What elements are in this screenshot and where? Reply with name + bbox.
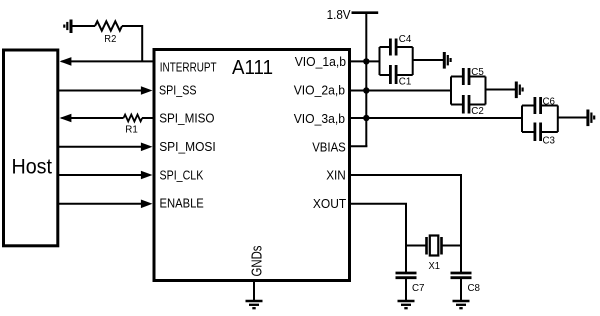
wire VIO_2a,b bbox=[351, 90, 452, 92]
svg-text:C8: C8 bbox=[468, 283, 481, 294]
ground (sideways, right of C4/C1) bbox=[444, 52, 450, 69]
svg-text:SPI_MOSI: SPI_MOSI bbox=[159, 140, 216, 154]
svg-text:X1: X1 bbox=[429, 261, 441, 272]
svg-text:XIN: XIN bbox=[326, 169, 346, 183]
svg-text:R1: R1 bbox=[125, 125, 138, 136]
svg-text:C4: C4 bbox=[399, 34, 412, 45]
wire VIO_1a,b bbox=[351, 60, 380, 62]
svg-text:C2: C2 bbox=[471, 106, 484, 117]
svg-text:XOUT: XOUT bbox=[313, 197, 347, 211]
svg-text:1.8V: 1.8V bbox=[327, 8, 351, 22]
Host block bbox=[4, 50, 58, 246]
node junction VIO_2/rail bbox=[363, 87, 369, 93]
wire C5/C2 to ground bbox=[486, 89, 516, 91]
wire GNDs to ground bbox=[253, 281, 255, 301]
svg-text:ENABLE: ENABLE bbox=[160, 197, 204, 211]
svg-text:VIO_1a,b: VIO_1a,b bbox=[295, 55, 346, 69]
wire ENABLE (arrow into A111) bbox=[58, 200, 153, 209]
wire INTERRUPT (A111 to Host, arrow into Host) bbox=[60, 57, 153, 66]
wire XOUT to crystal bbox=[351, 204, 407, 272]
wire VIO_3a,b bbox=[351, 117, 523, 119]
wire SPI_MISO (A111 to Host, arrow into Host) bbox=[60, 114, 153, 123]
svg-text:C6: C6 bbox=[543, 97, 556, 108]
svg-text:VBIAS: VBIAS bbox=[312, 141, 346, 155]
resistor R2 bbox=[95, 21, 122, 45]
ground (below GNDs pin) bbox=[246, 301, 263, 308]
svg-text:SPI_MISO: SPI_MISO bbox=[159, 111, 214, 125]
wire SPI_CLK (arrow into A111) bbox=[58, 171, 153, 180]
ground (below C7) bbox=[398, 301, 415, 308]
svg-text:Host: Host bbox=[12, 155, 53, 178]
capacitor C8 bbox=[451, 273, 481, 294]
svg-text:INTERRUPT: INTERRUPT bbox=[160, 60, 217, 74]
wire C8 to ground bbox=[460, 279, 462, 301]
node junction VIO_1/rail bbox=[363, 58, 369, 64]
capacitor C4 (top) and C1 (bottom) parallel pair on VIO_1 bbox=[380, 34, 413, 88]
capacitor C6 (top) and C3 (bottom) parallel pair on VIO_3 bbox=[522, 97, 558, 147]
wire 1.8V rail (vertical) bbox=[365, 13, 367, 147]
svg-text:A111: A111 bbox=[232, 56, 273, 79]
svg-text:C1: C1 bbox=[399, 77, 412, 88]
svg-text:SPI_SS: SPI_SS bbox=[159, 83, 197, 97]
ground (sideways, right of C5/C2) bbox=[516, 82, 522, 99]
resistor R1 bbox=[124, 115, 143, 136]
svg-text:C3: C3 bbox=[543, 136, 556, 147]
wire C4/C1 to ground bbox=[413, 59, 443, 61]
wire SPI_SS (Host to A111, arrow into A111) bbox=[58, 86, 153, 95]
wire VBIAS to rail bbox=[351, 145, 368, 147]
svg-text:VIO_3a,b: VIO_3a,b bbox=[294, 112, 345, 126]
svg-text:C5: C5 bbox=[471, 67, 484, 78]
svg-text:GNDs: GNDs bbox=[250, 246, 266, 277]
capacitor C7 bbox=[396, 273, 425, 294]
wire C6/C3 to ground bbox=[558, 117, 587, 119]
ground (sideways, right of C6/C3) bbox=[588, 110, 594, 127]
supply 1.8V bbox=[327, 8, 379, 22]
svg-text:SPI_CLK: SPI_CLK bbox=[160, 168, 204, 182]
svg-text:VIO_2a,b: VIO_2a,b bbox=[294, 84, 345, 98]
crystal X1 bbox=[406, 236, 461, 273]
wire ground to R2 bbox=[72, 25, 95, 27]
wire SPI_MOSI (arrow into A111) bbox=[58, 143, 153, 152]
capacitor C5 (top) and C2 (bottom) parallel pair on VIO_2 bbox=[451, 67, 486, 117]
wire XIN to crystal bbox=[351, 175, 462, 272]
ground (sideways, left of R2) bbox=[64, 20, 71, 34]
svg-text:C7: C7 bbox=[412, 283, 425, 294]
IC U1 A111 bbox=[154, 50, 350, 281]
wire C7 to ground bbox=[405, 279, 407, 301]
svg-text:R2: R2 bbox=[104, 34, 116, 45]
wire R2 to INTERRUPT line bbox=[122, 26, 142, 61]
ground (below C8) bbox=[453, 301, 470, 308]
node junction VIO_3/rail bbox=[363, 115, 369, 121]
